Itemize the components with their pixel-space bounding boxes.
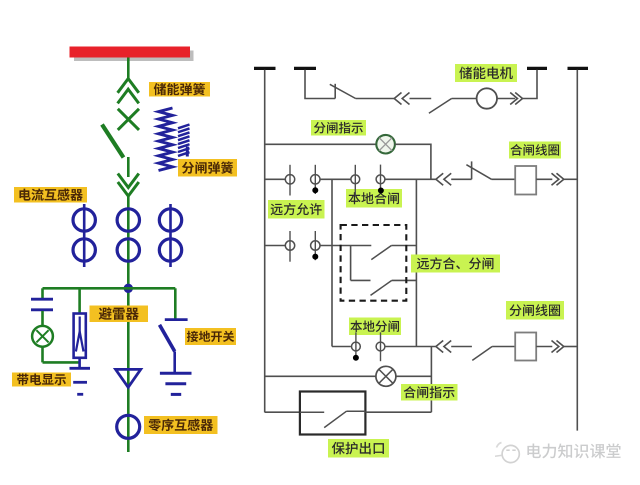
- wire: tee to earthing switch: [174, 288, 177, 318]
- wire: inner tee down: [350, 246, 352, 281]
- cable termination (triangle): [116, 369, 141, 387]
- terminal pair (remote permit row1): [285, 165, 320, 196]
- label 避雷器: [90, 306, 149, 323]
- wire: [497, 98, 515, 100]
- wire: lamp row: [265, 143, 377, 145]
- wire: opening row: [332, 346, 351, 348]
- NO contact (breaker aux, open circuit): [472, 347, 492, 361]
- plug contact << (closing coil): [436, 173, 451, 185]
- terminal pair (local open button): [352, 332, 385, 361]
- wire: [492, 178, 516, 180]
- wire: tee horizontal: [43, 287, 176, 290]
- wire: [564, 346, 578, 348]
- ground (earthing switch): [160, 373, 192, 394]
- current transformer CT2: [117, 209, 139, 261]
- ground (arrester): [70, 368, 91, 394]
- label 分闸弹簧: [178, 159, 237, 177]
- breaker drawout chevrons (top): [118, 79, 139, 104]
- breaker contact X: [118, 109, 139, 130]
- label 合闸线圈: [509, 142, 561, 159]
- NO contact (motor limit): [429, 99, 452, 114]
- wire: [564, 178, 578, 180]
- label 接地开关: [185, 328, 236, 345]
- wire: [410, 98, 432, 100]
- junction dot: [378, 188, 383, 193]
- label 合闸指示: [401, 384, 458, 401]
- terminal bar T2: [294, 67, 316, 70]
- wire: [451, 178, 471, 180]
- opening coil (rect): [515, 333, 536, 361]
- energy-storage spring (zigzag, blue): [159, 108, 173, 171]
- junction dot: [313, 254, 318, 259]
- right rail (positive bus): [576, 70, 578, 431]
- main feeder wire (green, through CTs to cable): [127, 196, 130, 452]
- junction dot: [313, 188, 318, 193]
- busbar shadow: [74, 51, 194, 62]
- wire: bus to breaker: [127, 58, 130, 81]
- protection output box: [300, 392, 366, 435]
- mid rail (contact common): [415, 179, 417, 346]
- current transformer CT3: [159, 204, 181, 267]
- arrester 避雷器: [74, 314, 86, 358]
- label 电流互感器: [14, 187, 87, 203]
- terminal bar T1: [254, 67, 276, 70]
- label 本地合闸: [346, 189, 402, 208]
- wire: closing row: [265, 178, 286, 180]
- remote open contact (blade): [371, 280, 392, 295]
- wire: [320, 178, 351, 180]
- wire: inner lower stub: [351, 279, 371, 281]
- wire: [385, 346, 436, 348]
- breaker drawout chevrons (bottom): [118, 174, 139, 197]
- terminal pair (remote permit row2): [285, 231, 320, 262]
- wire: [451, 346, 472, 348]
- label 远方合、分闸: [411, 255, 500, 273]
- wire: T2 drop: [305, 70, 335, 99]
- plug contact >> (opening coil): [552, 341, 564, 353]
- label 保护出口: [328, 439, 389, 458]
- earthing switch fixed contact: [165, 318, 188, 321]
- watermark text 电力知识课堂: [527, 443, 620, 458]
- watermark logo: [495, 443, 519, 463]
- node: feeder tee: [124, 284, 132, 292]
- closing coil (rect): [515, 166, 536, 195]
- NC contact (breaker aux, close circuit): [466, 161, 491, 179]
- wire: [492, 346, 515, 348]
- plug contact >> (closing coil): [552, 173, 564, 185]
- right tie rail: [430, 347, 432, 413]
- label 分闸线圈: [506, 301, 564, 320]
- plug contact >> (motor): [510, 93, 522, 105]
- plug contact << (motor): [394, 93, 409, 105]
- wire: capacitor to lamp: [41, 311, 44, 326]
- wire: to T3: [523, 70, 538, 99]
- mid-left rail: [331, 179, 333, 346]
- wire: [536, 178, 552, 180]
- wire: [365, 411, 431, 413]
- NC contact (spring charged): [330, 84, 356, 99]
- terminal bar T3: [527, 67, 547, 70]
- zero-sequence CT (circle): [117, 415, 140, 438]
- wire: tee to arrester: [78, 288, 81, 313]
- opening spring (hatched, blue): [178, 125, 190, 157]
- live-display lamp (circle with X, green): [32, 326, 53, 347]
- label 零序互感器: [144, 416, 218, 434]
- wire: [391, 245, 416, 247]
- left rail (negative bus): [264, 70, 266, 413]
- label 带电显示: [12, 373, 71, 387]
- label 远方允许: [268, 200, 325, 219]
- wire: into remote box: [320, 245, 371, 247]
- wire: down to voltage divider: [41, 288, 44, 298]
- busbar (red): [70, 47, 191, 58]
- close indicator lamp (circle X): [376, 366, 396, 386]
- junction dot: [353, 355, 358, 360]
- terminal bar T4: [568, 67, 589, 70]
- terminal pair (local close button): [351, 165, 385, 196]
- wire below blade: [127, 157, 130, 177]
- label 分闸指示: [311, 120, 366, 136]
- wire: remote row: [265, 245, 286, 247]
- motor M (circle): [477, 88, 497, 108]
- remote close contact (blade): [371, 246, 391, 260]
- wire: [536, 346, 552, 348]
- wire: [396, 375, 432, 377]
- trip indicator lamp (green circle X): [376, 135, 395, 154]
- wire: close-indicator row: [265, 375, 376, 377]
- wire: lamp to arrester foot: [43, 347, 80, 363]
- wire: [392, 279, 417, 281]
- label 本地分闸: [349, 318, 401, 336]
- remote control dashed box: [341, 225, 407, 301]
- protection contact: [300, 411, 366, 427]
- wire: [452, 98, 477, 100]
- wire: [385, 178, 436, 180]
- breaker blade (open switch): [102, 125, 124, 158]
- wire: lamp to closing row: [395, 144, 431, 179]
- wire: blade to ground: [173, 351, 176, 373]
- plug contact << (opening coil): [436, 341, 451, 353]
- wire: protection row: [265, 411, 300, 413]
- earthing switch blade: [160, 325, 175, 352]
- label 储能电机: [455, 64, 517, 82]
- wire: arrester to ground: [78, 358, 81, 369]
- label 储能弹簧: [149, 82, 210, 97]
- capacitor (divider): [31, 299, 53, 310]
- current transformer CT1: [73, 204, 95, 267]
- wire: [356, 98, 395, 100]
